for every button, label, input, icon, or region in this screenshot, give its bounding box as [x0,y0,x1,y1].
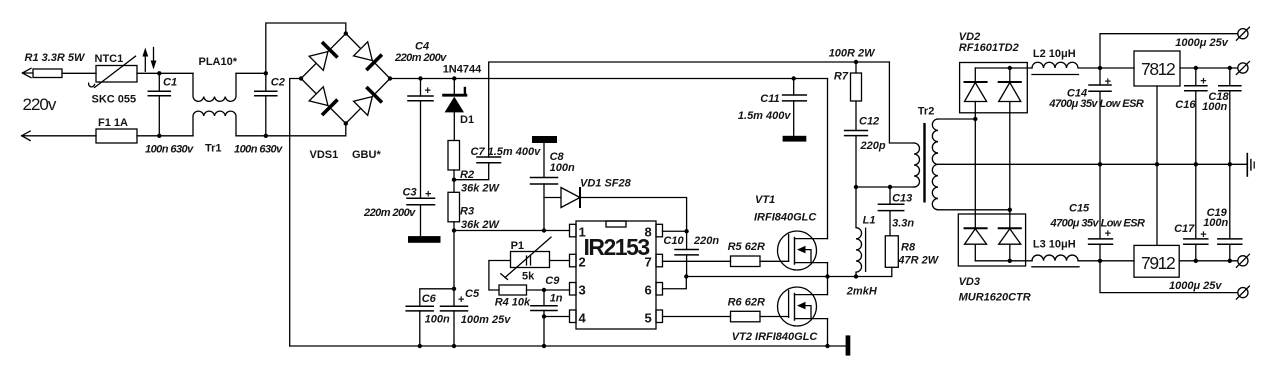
node C4 top [418,76,422,80]
surge arrow up [142,48,148,72]
node L1 top [854,185,858,189]
ground bar above C8 [532,136,557,143]
svg-text:C12: C12 [859,116,879,128]
node VT1 source VS [825,274,829,278]
capacitor C14 [1089,68,1111,164]
capacitor C19 [1218,164,1242,260]
svg-text:VDS1: VDS1 [310,149,339,161]
bridge rectifier VDS1 diamond [301,34,390,124]
svg-text:2mkH: 2mkH [846,286,878,298]
rectifier VD3 box [958,214,1025,266]
node pin8 C10 VD1 [684,229,688,233]
wire: VT2 drain to VS rail [827,277,829,295]
wire: 7812 ground pin [1156,86,1158,164]
svg-text:100m 25v: 100m 25v [461,314,511,326]
svg-text:100n 630v: 100n 630v [234,144,283,156]
svg-text:4700μ 35v Low ESR: 4700μ 35v Low ESR [1050,218,1145,230]
node 0V C16 [1194,162,1198,166]
rectifier VD2 box [960,63,1028,113]
transformer Tr2 core [923,123,925,203]
svg-text:4: 4 [579,311,587,326]
svg-text:R5 62R: R5 62R [728,241,765,253]
node C2 top [264,71,268,75]
svg-text:SKC 055: SKC 055 [92,94,137,106]
svg-text:220p: 220p [860,140,886,152]
svg-text:100n: 100n [425,314,450,326]
svg-text:RF1601TD2: RF1601TD2 [959,42,1019,54]
ground bar below C11 [783,136,807,142]
capacitor C18 [1219,68,1241,164]
node D1 top [452,76,456,80]
node secondary bottom tap [1008,208,1012,212]
svg-text:R6 62R: R6 62R [728,297,765,309]
resistor R6 [731,311,761,322]
svg-text:L3 10μH: L3 10μH [1033,239,1076,251]
node C19 bottom [1228,259,1232,263]
pin 1 stub [570,224,577,237]
bridge diode lower-left [308,86,338,116]
bridge diode upper-left [308,41,338,71]
pin 8 stub [656,224,663,237]
svg-text:100n: 100n [1203,217,1228,229]
node 0V 7812 [1155,162,1159,166]
node R2 R3 junction [452,178,456,182]
resistor R5 [731,256,761,267]
svg-text:C5: C5 [465,288,480,300]
diode VD3 right [999,210,1021,261]
svg-text:+: + [1200,76,1206,88]
svg-text:100n: 100n [1202,101,1227,113]
node bridge bottom [344,121,348,125]
node L3 C15 [1098,259,1102,263]
svg-text:VD1 SF28: VD1 SF28 [580,178,632,190]
node bridge top [344,31,348,35]
wire: raw positive riser and top output line [1100,34,1238,68]
capacitor C10 [675,231,698,276]
wire: secondary bottom tap [938,209,1010,211]
wire: secondary top tap [938,118,975,120]
wire: VS rail [686,276,892,278]
ground bar below C3 [408,236,441,243]
svg-text:C10: C10 [663,235,684,247]
node VD3 anode junction [1008,259,1012,263]
svg-text:C4: C4 [415,41,429,53]
bridge diode lower-right [353,86,383,116]
svg-text:MUR1620CTR: MUR1620CTR [959,292,1031,304]
svg-text:L1: L1 [863,215,876,227]
svg-text:36k 2W: 36k 2W [461,183,501,195]
svg-text:R8: R8 [901,242,916,254]
wire: raw minus bottom output line [1100,261,1238,293]
svg-text:1.5m 400v: 1.5m 400v [738,110,791,122]
node C5 C6 branch junction [452,287,456,291]
node VT2 source bottom rail [825,344,829,348]
capacitor C5 [441,306,468,346]
wire: VD2 cathodes to L2 [975,67,1032,69]
wire: upper rail corner down to Tr2 primary top [889,62,914,143]
surge arrow down [151,48,157,70]
capacitor C13 [878,187,903,236]
diode VD2 left [965,68,987,119]
pin 6 stub [656,283,663,296]
svg-text:D1: D1 [460,114,474,126]
svg-text:220m 200v: 220m 200v [394,52,447,64]
svg-text:220v: 220v [23,95,57,114]
svg-text:C1: C1 [163,77,177,89]
node secondary top tap [973,117,977,121]
resistor R4 [499,285,527,295]
wire: secondary center tap 0V rail [938,163,1247,165]
svg-text:+: + [458,294,464,306]
capacitor C8 [531,143,558,231]
resistor R1 [33,69,62,78]
svg-text:GBU*: GBU* [352,149,381,161]
ground bar primary bottom [846,335,851,355]
node C17 bottom [1194,259,1198,263]
svg-text:C16: C16 [1175,99,1196,111]
capacitor C16 [1185,68,1207,164]
terminal raw minus output [1236,286,1249,299]
pin 4 stub [570,310,577,323]
wire: minus 12 rail [1100,260,1238,262]
svg-text:L2 10μH: L2 10μH [1033,48,1076,60]
wire: C12 L1 C13 Tr2 primary bottom [856,186,914,188]
svg-text:1n: 1n [550,293,563,305]
node C13 top [888,185,892,189]
svg-text:R7: R7 [834,71,849,83]
capacitor C4 [408,79,433,199]
svg-text:C11: C11 [760,93,779,105]
svg-text:+: + [1200,229,1206,241]
svg-text:Tr2: Tr2 [918,106,935,118]
svg-text:1000μ 25v: 1000μ 25v [1175,37,1228,49]
node bridge right [388,76,392,80]
zener diode D1 1N4744 [444,79,466,141]
capacitor C17 [1184,164,1208,260]
potentiometer P1 [501,237,551,279]
svg-text:Tr1: Tr1 [205,143,222,155]
svg-text:R4 10k: R4 10k [495,297,531,309]
wire: pin 8 to VD1 node [663,230,687,232]
resistor R8 [885,236,898,277]
svg-text:C13: C13 [892,193,912,205]
svg-text:R3: R3 [460,206,474,218]
node C18 top [1228,66,1232,70]
resistor R2 [448,141,460,171]
terminal raw plus output [1236,27,1249,40]
wire: R4 to pin 3 [527,289,570,291]
diode VD1 SF28 [544,188,687,232]
wire: VT1 source to VS rail [827,263,829,277]
regulator 7912 [1134,245,1179,277]
wire: pin 4 to C9 column [544,316,570,318]
svg-text:4700μ 35v Low ESR: 4700μ 35v Low ESR [1048,98,1143,110]
terminal plus 12 output [1236,62,1249,75]
inductor L1 [856,187,866,277]
wire: pin 5 to R6 [663,316,731,318]
transformer Tr1 common-mode choke [193,73,236,136]
wire: mains input top line with arrow [22,68,193,77]
svg-text:P1: P1 [511,240,524,252]
wire: R5 to VT1 gate [760,260,789,262]
svg-text:100n: 100n [550,162,575,174]
svg-text:100n 630v: 100n 630v [145,144,194,156]
svg-text:C3: C3 [403,187,417,199]
transformer Tr2 primary [914,143,920,187]
node 0V C18 [1228,162,1232,166]
pin 2 stub [570,254,577,266]
wire: C2 top to bridge top vertex [266,23,346,73]
svg-text:2: 2 [579,255,586,270]
node C11 top [792,76,796,80]
wire: primary negative bottom rail [290,345,846,347]
wire: R3 down the VCC column [453,222,455,306]
wire: R6 to VT2 gate [760,316,789,318]
svg-text:3: 3 [579,283,586,298]
svg-text:PLA10*: PLA10* [199,56,238,68]
node C9 top [542,288,546,292]
pin 5 stub [656,310,663,323]
svg-text:+: + [1105,76,1111,88]
svg-text:VT2 IRFI840GLC: VT2 IRFI840GLC [732,331,819,343]
node C1 bottom [157,134,161,138]
svg-text:+: + [425,85,431,97]
resistor R7 [851,62,862,131]
pin 7 stub [656,254,663,266]
wire: plus 12 rail [1100,67,1238,69]
svg-text:7: 7 [645,255,652,270]
inductor L2 [1032,62,1100,74]
capacitor C15 [1089,164,1113,260]
op-amp U1 IR2153 body [576,221,656,329]
svg-text:C9: C9 [545,275,560,287]
node 0V C14 [1098,162,1102,166]
node C9 bottom pin4 [542,314,546,318]
svg-text:3.3n: 3.3n [892,218,914,230]
capacitor C9 [531,290,557,346]
node VCC C8 junction [542,228,546,232]
wire: P1 left loop to R4 [489,261,511,291]
svg-text:C15: C15 [1069,203,1090,215]
node VS C10 [684,274,688,278]
transistor VT2 IRFI840GLC [778,287,828,326]
svg-text:F1 1A: F1 1A [98,117,128,129]
capacitor C3 [407,198,435,236]
svg-text:1: 1 [579,225,586,240]
node R7 top [854,60,858,64]
ground symbol right [1247,154,1254,176]
node C1 top [157,71,161,75]
node VCC wire junction [452,228,456,232]
thermistor NTC1 [89,56,137,87]
wire: pin 6 to VS rail [663,277,687,289]
svg-text:8: 8 [645,225,652,240]
wire: top line Tr1 to C2 [236,72,266,74]
transformer Tr2 secondary [932,119,938,210]
node bridge left [299,76,303,80]
node C2 bottom [264,134,268,138]
wire: VCC line to pin 1 [454,230,570,232]
capacitor C12 [845,131,868,188]
svg-text:7912: 7912 [1141,253,1175,273]
svg-text:C17: C17 [1174,223,1195,235]
node C16 top [1194,66,1198,70]
svg-text:C7 1.5m 400v: C7 1.5m 400v [471,146,542,158]
svg-text:100R 2W: 100R 2W [829,48,876,60]
svg-text:5: 5 [645,311,652,326]
capacitor C7 [454,79,501,180]
wire: R2 to R3 [453,170,455,192]
svg-text:6: 6 [645,283,652,298]
regulator 7812 [1134,51,1180,86]
svg-text:47R 2W: 47R 2W [897,255,939,267]
svg-text:R1 3.3R 5W: R1 3.3R 5W [25,52,87,64]
transistor VT1 IRFI840GLC [778,231,828,270]
svg-text:VT1: VT1 [755,194,775,206]
wire: VT2 source to bottom rail [827,319,829,346]
wire: mains input bottom line with arrow [22,131,193,140]
wire: 7912 ground pin [1156,164,1158,245]
svg-text:IR2153: IR2153 [584,234,650,260]
diode VD3 left [965,119,987,261]
wire: positive rail after bridge [390,78,828,80]
svg-text:IRFI840GLC: IRFI840GLC [754,212,817,224]
node L1 bottom VS rail [854,274,858,278]
svg-text:NTC1: NTC1 [95,53,124,65]
wire: VD3 anodes to L3 [975,260,1032,262]
capacitor C1 [148,73,170,136]
node C6 bottom rail [418,344,422,348]
node L2 C14 [1098,66,1102,70]
svg-text:1000μ 25v: 1000μ 25v [1169,280,1222,292]
node VD2 right cathode riser [1008,66,1012,70]
svg-text:7812: 7812 [1141,59,1175,79]
resistor R3 [448,192,460,222]
capacitor C11 [783,79,807,136]
wire: pin 7 to R5 [663,260,731,262]
node C9 bottom rail [542,344,546,348]
svg-text:36k 2W: 36k 2W [461,219,501,231]
fuse F1 [96,129,137,143]
wire: P1 right to pin 2 [550,260,570,262]
wire: bottom line Tr1 to C2 to bridge [236,124,346,136]
capacitor C2 [255,73,277,136]
svg-text:220n: 220n [693,235,719,247]
capacitor C6 [406,289,454,346]
svg-text:C6: C6 [422,293,437,305]
svg-text:1N4744: 1N4744 [443,64,482,76]
svg-text:220m 200v: 220m 200v [363,207,416,219]
bridge diode upper-right [353,41,383,71]
pin 3 stub [570,283,577,296]
wire: riser to upper positive rail [489,62,890,79]
diode VD2 right [999,68,1021,210]
node C5 bottom rail [452,344,456,348]
wire: bridge left vertex to primary negative loop [290,79,301,347]
inductor L3 [1032,255,1100,267]
svg-text:+: + [425,189,431,201]
terminal minus 12 output [1236,254,1249,267]
svg-text:5k: 5k [522,271,535,283]
svg-text:VD3: VD3 [959,276,980,288]
svg-text:C2: C2 [271,77,285,89]
svg-text:+: + [1105,228,1111,240]
wire: VT1 drain riser [827,79,829,239]
